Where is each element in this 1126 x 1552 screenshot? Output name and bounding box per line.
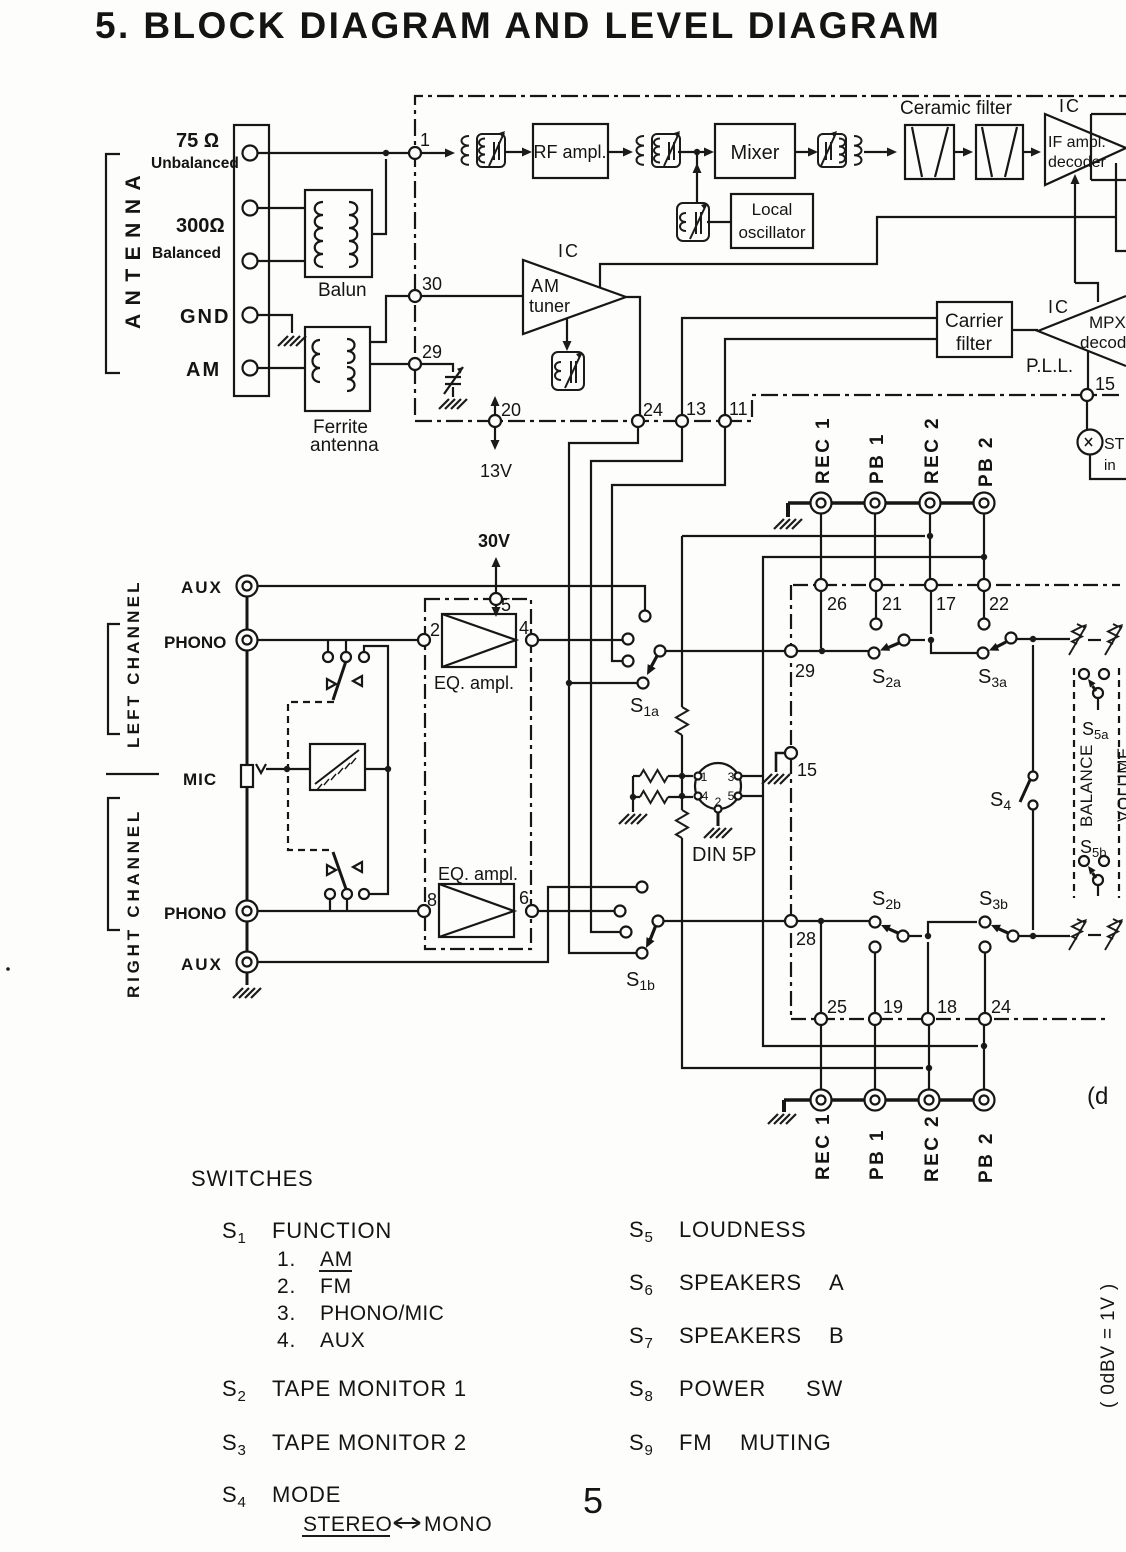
svg-text:24: 24 xyxy=(643,400,663,420)
svg-text:15: 15 xyxy=(1095,374,1115,394)
svg-text:ANTENNA: ANTENNA xyxy=(122,167,145,329)
svg-text:8: 8 xyxy=(427,890,437,910)
svg-text:5: 5 xyxy=(501,595,511,615)
svg-text:oscillator: oscillator xyxy=(738,223,805,242)
svg-text:Balanced: Balanced xyxy=(152,245,221,262)
svg-text:30: 30 xyxy=(422,274,442,294)
svg-text:30V: 30V xyxy=(478,531,510,551)
svg-text:28: 28 xyxy=(796,929,816,949)
svg-text:P.L.L.: P.L.L. xyxy=(1026,356,1073,377)
svg-text:MODE: MODE xyxy=(272,1482,341,1507)
svg-text:2: 2 xyxy=(715,795,722,809)
svg-text:AUX: AUX xyxy=(181,578,223,597)
svg-text:4: 4 xyxy=(702,789,709,803)
svg-text:Mixer: Mixer xyxy=(731,142,780,164)
svg-text:SPEAKERS: SPEAKERS xyxy=(679,1323,802,1348)
svg-text:S6: S6 xyxy=(629,1270,654,1299)
svg-text:S9: S9 xyxy=(629,1430,654,1459)
svg-text:S7: S7 xyxy=(629,1323,654,1352)
svg-text:S8: S8 xyxy=(629,1376,654,1405)
svg-text:24: 24 xyxy=(991,997,1011,1017)
svg-text:11: 11 xyxy=(729,399,748,419)
svg-text:TAPE MONITOR 1: TAPE MONITOR 1 xyxy=(272,1376,467,1401)
svg-text:S1b: S1b xyxy=(626,969,655,993)
svg-text:13V: 13V xyxy=(480,461,512,481)
svg-text:PB 2: PB 2 xyxy=(976,1131,997,1183)
svg-text:B: B xyxy=(829,1323,844,1348)
svg-text:3: 3 xyxy=(728,770,735,784)
svg-text:MIC: MIC xyxy=(183,770,217,789)
svg-text:13: 13 xyxy=(686,399,706,419)
svg-text:4.: 4. xyxy=(277,1329,296,1352)
svg-text:REC 2: REC 2 xyxy=(922,416,943,484)
svg-text:decoder: decoder xyxy=(1080,333,1126,352)
svg-text:antenna: antenna xyxy=(310,435,379,456)
svg-text:6: 6 xyxy=(519,888,529,908)
svg-text:1: 1 xyxy=(420,130,430,150)
svg-text:SW: SW xyxy=(806,1376,843,1401)
svg-text:DIN 5P: DIN 5P xyxy=(692,844,756,866)
svg-text:Ceramic filter: Ceramic filter xyxy=(900,98,1013,119)
svg-text:( 0dBV = 1V ): ( 0dBV = 1V ) xyxy=(1098,1283,1119,1408)
svg-text:filter: filter xyxy=(956,334,993,355)
svg-text:S5a: S5a xyxy=(1082,719,1109,742)
svg-text:in: in xyxy=(1104,457,1116,474)
svg-text:IC: IC xyxy=(1048,297,1070,317)
svg-text:LEFT CHANNEL: LEFT CHANNEL xyxy=(124,579,143,748)
svg-text:MUTING: MUTING xyxy=(740,1430,832,1455)
svg-text:S2: S2 xyxy=(222,1376,247,1405)
svg-text:25: 25 xyxy=(827,997,847,1017)
svg-text:FM: FM xyxy=(320,1275,352,1298)
svg-text:1: 1 xyxy=(701,770,708,784)
svg-text:decoder: decoder xyxy=(1048,154,1106,171)
svg-text:RIGHT CHANNEL: RIGHT CHANNEL xyxy=(124,808,143,998)
svg-text:GND: GND xyxy=(180,306,230,328)
svg-text:S5: S5 xyxy=(629,1217,654,1246)
svg-text:ST: ST xyxy=(1104,436,1125,453)
svg-text:18: 18 xyxy=(937,997,957,1017)
svg-text:AUX: AUX xyxy=(181,955,223,974)
svg-text:VOLUME: VOLUME xyxy=(1114,747,1126,822)
svg-text:AM: AM xyxy=(531,276,560,296)
svg-text:PHONO: PHONO xyxy=(164,904,226,923)
svg-text:PHONO/MIC: PHONO/MIC xyxy=(320,1302,444,1325)
svg-text:2.: 2. xyxy=(277,1275,296,1298)
svg-text:TAPE MONITOR 2: TAPE MONITOR 2 xyxy=(272,1430,467,1455)
svg-text:PHONO: PHONO xyxy=(164,633,226,652)
svg-text:FUNCTION: FUNCTION xyxy=(272,1218,392,1243)
svg-text:STEREO: STEREO xyxy=(303,1513,392,1536)
svg-text:19: 19 xyxy=(883,997,903,1017)
svg-text:17: 17 xyxy=(936,594,956,614)
svg-text:S4: S4 xyxy=(990,789,1011,813)
svg-text:SPEAKERS: SPEAKERS xyxy=(679,1270,802,1295)
svg-text:300Ω: 300Ω xyxy=(176,215,225,237)
svg-text:EQ. ampl.: EQ. ampl. xyxy=(434,673,514,693)
svg-text:(d: (d xyxy=(1087,1083,1108,1110)
svg-text:PB 2: PB 2 xyxy=(976,435,997,487)
svg-text:5. BLOCK DIAGRAM AND LEVEL DIA: 5. BLOCK DIAGRAM AND LEVEL DIAGRAM xyxy=(95,5,941,46)
svg-text:IF ampl.: IF ampl. xyxy=(1048,134,1106,151)
svg-text:S4: S4 xyxy=(222,1482,247,1511)
svg-text:S2a: S2a xyxy=(872,666,901,690)
svg-text:26: 26 xyxy=(827,594,847,614)
svg-text:tuner: tuner xyxy=(529,296,570,316)
svg-text:S3: S3 xyxy=(222,1430,247,1459)
svg-text:MPX: MPX xyxy=(1089,313,1126,332)
svg-text:1.: 1. xyxy=(277,1248,296,1271)
svg-text:IC: IC xyxy=(1059,96,1081,116)
svg-text:3.: 3. xyxy=(277,1302,296,1325)
svg-text:Balun: Balun xyxy=(318,280,367,301)
svg-text:PB 1: PB 1 xyxy=(867,1128,888,1180)
svg-text:5: 5 xyxy=(583,1480,604,1521)
svg-text:S1a: S1a xyxy=(630,695,659,719)
svg-text:S5b: S5b xyxy=(1080,837,1106,860)
svg-text:REC 2: REC 2 xyxy=(922,1114,943,1182)
svg-text:BALANCE: BALANCE xyxy=(1077,744,1096,827)
svg-text:PB 1: PB 1 xyxy=(867,432,888,484)
svg-text:AM: AM xyxy=(186,359,221,381)
svg-text:A: A xyxy=(829,1270,844,1295)
svg-text:AUX: AUX xyxy=(320,1329,366,1352)
svg-text:S1: S1 xyxy=(222,1218,247,1247)
svg-text:S3a: S3a xyxy=(978,666,1007,690)
svg-text:5: 5 xyxy=(728,789,735,803)
svg-text:S3b: S3b xyxy=(979,888,1008,912)
svg-text:FM: FM xyxy=(679,1430,712,1455)
svg-text:20: 20 xyxy=(501,400,521,420)
svg-text:29: 29 xyxy=(422,342,442,362)
svg-text:IC: IC xyxy=(558,241,580,261)
svg-text:75 Ω: 75 Ω xyxy=(176,130,219,152)
svg-text:POWER: POWER xyxy=(679,1376,766,1401)
svg-text:MONO: MONO xyxy=(424,1513,493,1536)
svg-text:Carrier: Carrier xyxy=(945,311,1004,332)
svg-text:REC 1: REC 1 xyxy=(813,1112,834,1180)
svg-text:SWITCHES: SWITCHES xyxy=(191,1166,314,1191)
svg-text:LOUDNESS: LOUDNESS xyxy=(679,1217,806,1242)
svg-text:21: 21 xyxy=(882,594,902,614)
svg-text:15: 15 xyxy=(797,760,817,780)
svg-text:Local: Local xyxy=(752,200,793,219)
svg-text:S2b: S2b xyxy=(872,888,901,912)
svg-text:2: 2 xyxy=(430,620,440,640)
svg-text:RF ampl.: RF ampl. xyxy=(533,142,606,162)
svg-text:4: 4 xyxy=(519,618,529,638)
svg-text:29: 29 xyxy=(795,661,815,681)
svg-text:EQ. ampl.: EQ. ampl. xyxy=(438,864,518,884)
svg-text:REC 1: REC 1 xyxy=(813,416,834,484)
svg-text:Unbalanced: Unbalanced xyxy=(151,155,239,172)
svg-text:AM: AM xyxy=(320,1248,353,1271)
svg-text:22: 22 xyxy=(989,594,1009,614)
